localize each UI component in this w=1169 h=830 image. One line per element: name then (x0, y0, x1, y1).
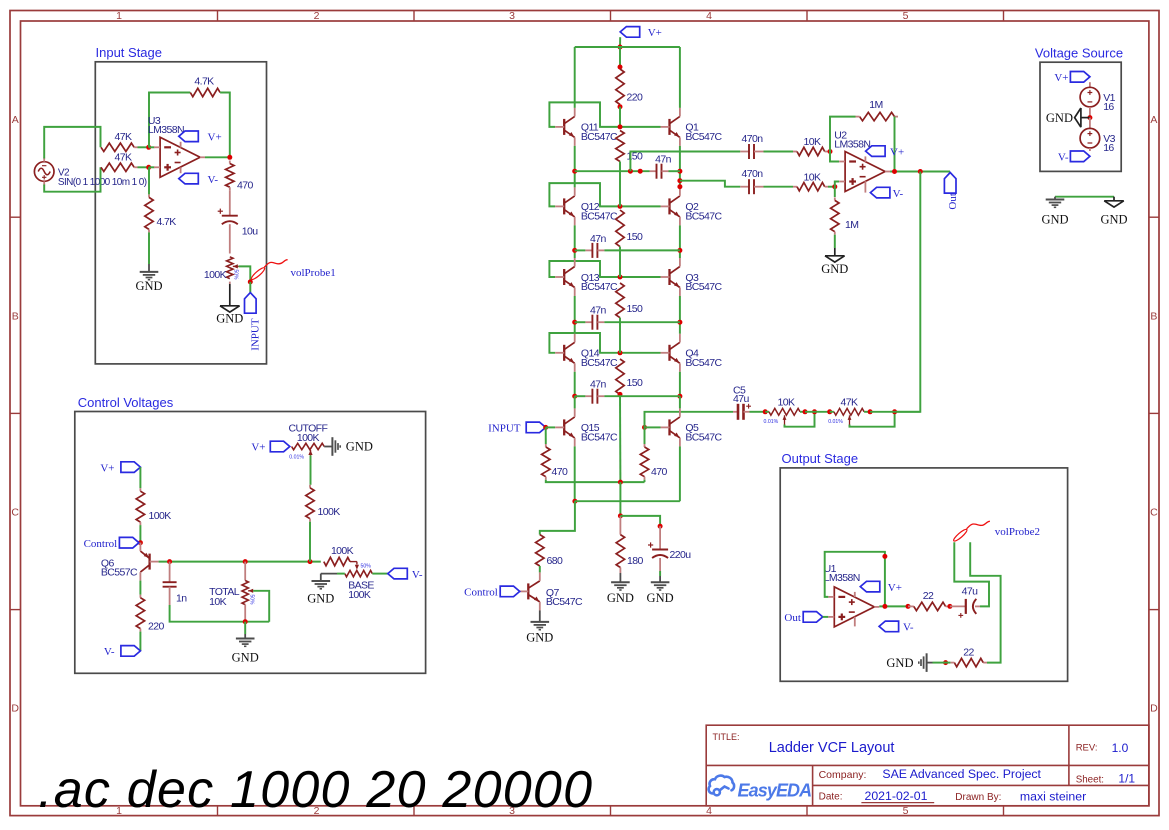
node 22 load left (943, 660, 948, 665)
ladder stage 3 base loop wire (549, 261, 660, 277)
wire feedback right vertical to output node (220, 93, 230, 158)
wire V+ flag down to top rail (619, 37, 621, 47)
net flag Out (U2 output) (944, 173, 956, 194)
wire BASE right to V- flag (372, 573, 388, 575)
wire to 47K trimmer (805, 411, 830, 413)
svg-text:10u: 10u (242, 225, 258, 237)
node rail 1 right (677, 169, 682, 174)
wire load branch down (970, 542, 1000, 662)
resistor 100K (horizontal, to BASE wiper) (324, 557, 350, 565)
svg-text:BC547C: BC547C (685, 357, 722, 369)
transistor Q4 BC547C (668, 345, 670, 361)
node rail 3 right (677, 320, 682, 325)
node U2 non-inverting (832, 184, 837, 189)
wire non-inverting input to 4.7K (148, 167, 150, 194)
svg-text:2: 2 (314, 10, 320, 22)
svg-text:GND: GND (135, 279, 162, 293)
wire rail to 180 node (619, 482, 621, 516)
net flag Control (control box) (119, 537, 138, 548)
ground GND (bars sideways, cutoff) (331, 437, 333, 456)
svg-text:3: 3 (509, 10, 515, 22)
wire 220u to ground (659, 558, 661, 571)
net flag V- on U2 (864, 181, 866, 192)
svg-text:22: 22 (923, 590, 934, 602)
svg-text:100K: 100K (297, 432, 320, 444)
wire Q5 emitter down (679, 446, 681, 501)
svg-text:GND: GND (607, 591, 634, 605)
node U3 output (227, 155, 232, 160)
trimmer 10K 0.01% (765, 411, 769, 413)
wire rail to Q14 collector (574, 322, 576, 334)
svg-text:100K: 100K (348, 589, 371, 601)
svg-text:10K: 10K (804, 171, 821, 183)
title block outline (706, 725, 1149, 806)
svg-text:GND: GND (232, 651, 259, 665)
capacitor C5 47u polarized (733, 411, 738, 413)
svg-text:LM358N: LM358N (824, 572, 860, 584)
voltage probe volProbe1 (250, 266, 266, 281)
svg-text:LM358N: LM358N (834, 138, 870, 150)
source V3 16 (1089, 118, 1091, 129)
wire 220 to V- flag (139, 632, 141, 651)
svg-text:100K: 100K (318, 506, 341, 518)
transistor Q15 BC547C (563, 419, 565, 435)
wire top rail to Q11 collector (574, 47, 576, 108)
wire top rail to Q1 collector (679, 47, 681, 108)
wire CUTOFF right to ground (324, 446, 332, 448)
node U1 feedback top (882, 554, 887, 559)
svg-text:BC547C: BC547C (685, 281, 722, 293)
wire ladder top rail (575, 46, 680, 48)
svg-text:47n: 47n (590, 305, 606, 317)
ground GND (bars, control box) (236, 638, 255, 640)
resistor 470 (right) (644, 427, 646, 444)
net flag V+ (control right) (270, 441, 290, 452)
svg-text:TITLE:: TITLE: (713, 732, 740, 742)
wire Q5 base (645, 426, 661, 428)
wire 680 to Q7 collector (539, 566, 541, 572)
node supply center (1087, 115, 1092, 120)
node Q5 base (642, 425, 647, 430)
node rail 4 left (572, 394, 577, 399)
svg-text:GND: GND (307, 592, 334, 606)
svg-text:Control Voltages: Control Voltages (78, 395, 174, 410)
potentiometer CUTOFF 100K (292, 443, 325, 449)
svg-text:220: 220 (148, 621, 164, 633)
svg-text:1M: 1M (845, 219, 858, 231)
svg-text:1/1: 1/1 (1118, 772, 1135, 786)
svg-text:Control: Control (84, 538, 118, 550)
resistor 47K (upper) (101, 143, 134, 151)
wire Q4 emitter to rail (679, 372, 681, 396)
svg-text:INPUT: INPUT (488, 423, 521, 435)
svg-text:0.01%: 0.01% (764, 419, 779, 425)
wire 10K wiper loop (785, 412, 815, 427)
net flag V+ (voltage source) (1070, 72, 1090, 83)
resistor 1M (feedback) (860, 112, 895, 120)
svg-text:BC547C: BC547C (581, 131, 618, 143)
svg-text:SIN(0 1 1000 10m 1 0): SIN(0 1 1000 10m 1 0) (58, 177, 147, 188)
wire Q15 emitter down (574, 446, 576, 501)
node 180 top (618, 513, 623, 518)
capacitor 220u polarized (659, 526, 661, 549)
resistor 220 (ladder top) (619, 47, 621, 67)
svg-text:BC547C: BC547C (685, 211, 722, 223)
svg-text:1M: 1M (869, 99, 882, 111)
net flag V+ on U1 (854, 592, 856, 597)
svg-text:470n: 470n (742, 133, 764, 145)
svg-text:LM358N: LM358N (148, 124, 184, 136)
svg-text:C: C (11, 507, 19, 519)
wire Q2 emitter to rail (679, 225, 681, 250)
net flag V+ (ladder top) (620, 27, 640, 38)
wire 470 right to rail (644, 480, 646, 482)
wire feedback left vertical (149, 93, 190, 148)
ground GND (bars, 220u) (651, 581, 670, 583)
ladder stage 1 base loop wire (549, 102, 660, 127)
wire 1M to ground (834, 235, 836, 248)
resistor 470 (229, 161, 231, 164)
svg-text:REV:: REV: (1076, 743, 1098, 754)
wire 470 left to emitter rail (546, 480, 645, 482)
svg-text:GND: GND (647, 591, 674, 605)
op-amp U2 LM358N (845, 152, 885, 192)
wire Q6 base rail (159, 561, 321, 563)
svg-text:BC547C: BC547C (581, 432, 618, 444)
svg-text:GND: GND (216, 311, 243, 325)
node 470 rail center (618, 480, 623, 485)
ground GND (bars, input stage left) (140, 271, 159, 273)
node rail 4 right (677, 394, 682, 399)
svg-text:V+: V+ (648, 27, 662, 39)
svg-text:100K: 100K (149, 510, 172, 522)
wire 150-2 to base rail 3 (619, 247, 621, 277)
svg-text:47K: 47K (115, 152, 132, 164)
svg-text:100K: 100K (331, 545, 354, 557)
resistor 220 (control) (139, 595, 141, 598)
svg-text:4.7K: 4.7K (157, 216, 177, 228)
svg-text:47u: 47u (962, 586, 978, 598)
wire emitter node to 680 (540, 501, 575, 534)
resistor 10K (upper) (793, 151, 797, 153)
transistor Q11 BC547C (563, 119, 565, 135)
node U2 output (892, 169, 897, 174)
svg-text:V-: V- (893, 188, 904, 200)
svg-text:BC557C: BC557C (101, 567, 138, 579)
node Out branch (918, 169, 923, 174)
svg-text:A: A (1150, 114, 1157, 126)
node 47K left (827, 409, 832, 414)
wire 100K to BASE pot wiper arrow (350, 561, 357, 563)
wire rail to Q3 collector (679, 250, 681, 258)
wire U2 inverting input (830, 152, 839, 162)
svg-text:10K: 10K (778, 396, 795, 408)
svg-text:1: 1 (116, 10, 122, 22)
svg-text:1.0: 1.0 (1112, 741, 1129, 755)
svg-text:GND: GND (1041, 212, 1068, 226)
net flag V- (voltage source) (1089, 148, 1091, 151)
svg-text:V+: V+ (251, 442, 265, 454)
ground GND (triangle, below voltage source) (1113, 197, 1115, 201)
Input Stage section box (95, 62, 266, 364)
wire BASE left to ground (337, 573, 345, 575)
net flag V+ (control left) (121, 462, 140, 473)
wire Q13 emitter to rail (574, 296, 576, 322)
ground GND (bars, 180) (611, 581, 630, 583)
svg-text:GND: GND (1046, 111, 1073, 125)
trimmer 47K 0.01% (830, 411, 834, 413)
wire Q5 base loop to C5 (645, 412, 734, 428)
wire U2 output down to feedback path (895, 172, 921, 412)
svg-text:220: 220 (627, 92, 643, 104)
wire INPUT to Q15 base (546, 426, 556, 428)
ground GND (triangle, input stage right) (220, 305, 240, 307)
wire Q14 emitter to rail (574, 372, 576, 396)
svg-text:Ladder VCF Layout: Ladder VCF Layout (769, 740, 895, 756)
resistor 4.7K feedback (190, 88, 220, 96)
wire Q3 emitter to rail (679, 296, 681, 322)
source V1 16 (1089, 82, 1091, 87)
net flag INPUT (input stage) (245, 293, 257, 314)
wire 47K to U2 output vertical (870, 411, 920, 413)
svg-text:1n: 1n (176, 593, 187, 605)
ground GND (bars, base pot) (320, 574, 322, 581)
resistor 47K (lower) (101, 163, 134, 171)
ground GND (triangle, U2) (825, 255, 845, 257)
node Control (138, 540, 143, 545)
node 100K bottom (308, 559, 313, 564)
node U1 output (882, 604, 887, 609)
net flag Control (ladder) (500, 586, 520, 597)
svg-text:volProbe1: volProbe1 (291, 267, 336, 279)
frame row ticks and letters (10, 216, 21, 218)
wire rail 4 to Q5 collector (679, 396, 681, 408)
svg-text:Voltage Source: Voltage Source (1035, 46, 1123, 61)
capacitor 47n (rail 3) (575, 321, 586, 323)
svg-text:volProbe2: volProbe2 (995, 526, 1040, 538)
ground GND (bars, below voltage source) (1054, 197, 1056, 200)
resistor 22 (series) (908, 605, 914, 607)
svg-text:BC547C: BC547C (685, 432, 722, 444)
wire TOTAL bottom to ground (244, 622, 246, 634)
node 10K wiper join (812, 409, 817, 414)
wire rail to Q4 collector (679, 322, 681, 334)
resistor 150 (4) (616, 359, 624, 394)
svg-text:maxi steiner: maxi steiner (1020, 789, 1086, 803)
node base rail 4 (618, 350, 623, 355)
op-amp U1 LM358N (834, 587, 874, 627)
svg-text:D: D (11, 703, 19, 715)
svg-text:V+: V+ (890, 146, 904, 158)
svg-text:B: B (1150, 311, 1157, 323)
wire 22 load to ground (946, 662, 951, 664)
net flag V- on U3 (180, 167, 182, 173)
wire Q7 emitter to ground (539, 610, 541, 622)
svg-text:220u: 220u (670, 549, 692, 561)
wire C5 to 10K trimmer (750, 411, 766, 413)
node TOTAL bottom (243, 619, 248, 624)
svg-text:47n: 47n (655, 154, 671, 166)
svg-text:47K: 47K (841, 396, 858, 408)
svg-text:470: 470 (651, 466, 667, 478)
net flag Out (output stage input) (803, 612, 823, 623)
node Q15 base (543, 425, 548, 430)
wire 10K lower to U2 non-inverting node (828, 186, 835, 188)
wire U1 output (879, 605, 911, 607)
node 22 left (906, 604, 911, 609)
resistor 680 (536, 535, 544, 566)
resistor 150 (1) (616, 131, 624, 162)
ladder stage 4 base loop wire (549, 333, 660, 353)
svg-text:BC547C: BC547C (685, 131, 722, 143)
node 10K left (763, 409, 768, 414)
capacitor 1n (169, 562, 171, 583)
node INPUT (248, 279, 253, 284)
svg-text:V+: V+ (208, 132, 222, 144)
svg-text:V-: V- (104, 646, 115, 658)
svg-text:V-: V- (1058, 152, 1069, 164)
wire Q11 emitter to rail (574, 146, 576, 171)
wire 220 to base rail 1 (619, 107, 621, 127)
wire V+ to 100K (139, 467, 141, 488)
node base rail 3 (618, 275, 623, 280)
svg-text:Out: Out (784, 612, 801, 624)
wire V2 top to 47K R1 (44, 127, 100, 159)
node rail 3 left (572, 320, 577, 325)
svg-text:V-: V- (903, 622, 914, 634)
node non-inverting input U3 (146, 165, 151, 170)
node base rail 2 (618, 204, 623, 209)
resistor 4.7K to ground (148, 194, 150, 197)
svg-text:4: 4 (706, 10, 712, 22)
svg-text:10K: 10K (804, 136, 821, 148)
svg-text:V+: V+ (100, 462, 114, 474)
wire dual ground link (1055, 196, 1114, 198)
wire Q12 emitter to rail (574, 225, 576, 250)
wire 47K upper to inverting input (138, 146, 149, 148)
net flag V- on U1 (854, 617, 856, 627)
svg-text:150: 150 (627, 377, 643, 389)
resistor 150 (2) (616, 210, 624, 247)
resistor 22 (load) (983, 662, 987, 664)
node ladder top (618, 45, 623, 50)
wire 100K down to base rail (309, 522, 311, 562)
Output Stage section box (780, 468, 1067, 681)
node inverting input U3 (146, 145, 151, 150)
resistor 180 (619, 516, 621, 535)
wire 1M to U2 output (894, 117, 896, 172)
op-amp U3 LM358N (160, 137, 200, 177)
svg-text:GND: GND (886, 656, 913, 670)
svg-text:V+: V+ (1054, 72, 1068, 84)
potentiometer TOTAL 10K (244, 562, 246, 581)
transistor Q13 BC547C (563, 269, 565, 285)
svg-text:10K: 10K (209, 596, 226, 608)
net flag V+ on U3 (180, 142, 182, 148)
svg-text:Date:: Date: (819, 792, 843, 803)
Voltage Source section box (1040, 62, 1121, 171)
wire emitter rail Q15-Q5 (575, 500, 680, 502)
wire 180 to ground (619, 568, 621, 574)
wire U2 feedback up (830, 117, 856, 152)
svg-text:D: D (1150, 703, 1158, 715)
svg-text:50%: 50% (249, 595, 255, 606)
svg-text:EasyEDA: EasyEDA (738, 781, 812, 801)
svg-text:180: 180 (627, 555, 643, 567)
capacitor 10u polarized (222, 215, 238, 217)
node 47u left (947, 604, 952, 609)
wire Q1 emitter to rail (679, 146, 681, 171)
svg-text:16: 16 (1103, 142, 1114, 154)
wire 470 to 10u (229, 190, 231, 216)
net flag V+ on U2 (864, 156, 866, 161)
node emitter join (572, 499, 577, 504)
capacitor 470n (upper) (740, 151, 749, 153)
node 47K wiper join (892, 409, 897, 414)
node rail 1 left (572, 169, 577, 174)
node 150-4 bottom (618, 392, 623, 397)
net flag INPUT (ladder) (526, 422, 546, 433)
capacitor 47n (rail 4) (575, 395, 586, 397)
svg-text:Out: Out (947, 193, 959, 210)
wire stubs to U3 inputs (149, 146, 155, 148)
transistor Q5 BC547C (668, 419, 670, 435)
wire pot bottom to ground (229, 282, 231, 284)
resistor 1M (to ground) (834, 187, 836, 197)
transistor Q2 BC547C (668, 198, 670, 214)
svg-text:INPUT: INPUT (250, 318, 262, 351)
transistor Q14 BC547C (563, 345, 565, 361)
svg-text:A: A (12, 114, 19, 126)
svg-text:V+: V+ (888, 582, 902, 594)
ladder stage 2 base loop wire (549, 183, 660, 206)
potentiometer 100K with wiper (227, 257, 233, 279)
svg-text:2021-02-01: 2021-02-01 (865, 789, 928, 803)
svg-text:470: 470 (237, 180, 253, 192)
wire 100K to Control node (139, 525, 141, 543)
svg-text:SAE Advanced Spec. Project: SAE Advanced Spec. Project (882, 767, 1041, 781)
wire Out flag to U1 non-inverting (823, 616, 829, 618)
resistor 100K (control right vertical) (309, 485, 311, 488)
svg-text:Drawn By:: Drawn By: (955, 792, 1001, 803)
wire node to INPUT flag (249, 282, 251, 293)
voltage probe volProbe2 (952, 528, 968, 543)
svg-text:4.7K: 4.7K (194, 76, 214, 88)
svg-text:470n: 470n (742, 168, 764, 180)
svg-text:V-: V- (208, 174, 219, 186)
voltage source V2 (34, 162, 54, 182)
svg-text:BC547C: BC547C (581, 281, 618, 293)
wire pot wiper to INPUT node (239, 266, 251, 282)
svg-text:47n: 47n (590, 379, 606, 391)
wire Q6 collector to 220 (139, 581, 141, 595)
wire 470n lower to 10K (764, 186, 794, 188)
svg-text:.ac dec 1000 20 20000: .ac dec 1000 20 20000 (38, 761, 592, 819)
svg-text:470: 470 (552, 466, 568, 478)
svg-text:150: 150 (627, 231, 643, 243)
svg-text:Input Stage: Input Stage (96, 45, 163, 60)
transistor Q3 BC547C (668, 269, 670, 285)
ground GND (bars sideways, output) (927, 662, 933, 664)
svg-text:47n: 47n (590, 233, 606, 245)
wire 47K wiper loop (850, 412, 895, 427)
resistor 150 (3) (616, 283, 624, 318)
wire U2 non-inverting input (835, 182, 839, 187)
wire 470n upper to 10K (764, 151, 794, 153)
capacitor 47n (rail 1) (575, 170, 650, 172)
wire rail 4 to Q15 collector (574, 396, 576, 408)
wire 10K upper to U2 inverting node (828, 151, 830, 153)
